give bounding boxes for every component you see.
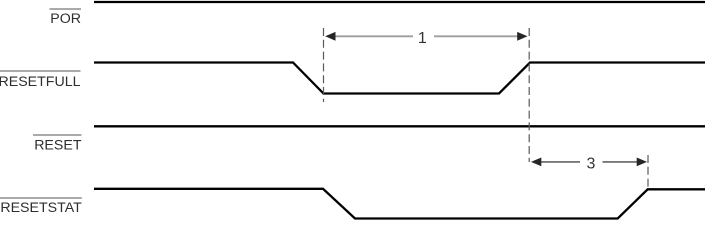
- svg-text:RESETFULL: RESETFULL: [0, 74, 81, 90]
- dashed reference line at RESETSTAT rise: [647, 155, 649, 189]
- dimension 1 shaft right: [434, 35, 519, 37]
- dashed reference line at RESETFULL fall: [323, 28, 325, 102]
- node RESETFULL label: [0, 71, 81, 90]
- node POR label: [50, 9, 82, 27]
- dimension 3 right arrowhead: [637, 158, 647, 167]
- svg-text:RESET: RESET: [34, 138, 82, 154]
- dimension 1 shaft left: [334, 35, 413, 37]
- svg-text:1: 1: [418, 30, 427, 47]
- dimension 1 right arrowhead: [517, 32, 527, 41]
- wire RESETSTAT waveform: [94, 189, 705, 219]
- node RESET label: [33, 135, 82, 154]
- svg-text:RESETSTAT: RESETSTAT: [0, 200, 82, 216]
- svg-text:3: 3: [587, 155, 596, 172]
- dimension 1 left arrowhead: [325, 32, 335, 41]
- wire POR waveform (high): [94, 1, 705, 3]
- dashed reference line at RESETFULL rise: [528, 28, 530, 162]
- node RESETSTAT label: [0, 198, 82, 216]
- svg-text:POR: POR: [50, 11, 81, 27]
- dimension 3 left arrowhead: [531, 158, 541, 167]
- dimension 3 shaft right: [603, 161, 639, 163]
- wire RESET waveform (high): [94, 125, 705, 127]
- wire RESETFULL waveform: [94, 63, 705, 94]
- dimension 3 shaft left: [541, 161, 581, 163]
